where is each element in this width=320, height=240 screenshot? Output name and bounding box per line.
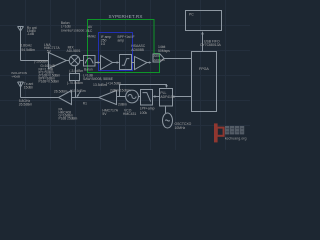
node LNA labels [44, 43, 60, 54]
node RX ant label [27, 26, 37, 36]
node IF amp labels [87, 25, 135, 46]
op-amp TX driver [99, 91, 117, 105]
svg-text:5.8GHz: 5.8GHz [20, 43, 32, 47]
svg-text:-1dB: -1dB [27, 32, 35, 36]
op-amp LNA [49, 53, 67, 69]
wire SAW to IF amp with arrow [95, 62, 99, 64]
node TX level labels [54, 89, 86, 93]
node driver gain labels [93, 82, 131, 107]
node USB FIFO labels [200, 40, 221, 47]
wire mixer to SAW [80, 60, 84, 62]
wire ADC to FPGA [164, 58, 192, 60]
antenna TX [18, 82, 24, 98]
wire PA to driver [72, 97, 99, 99]
op-amp VGA [135, 57, 148, 70]
svg-text:HMC431: HMC431 [123, 112, 136, 116]
node VCO labels [123, 109, 136, 117]
svg-text:26.5dBm: 26.5dBm [19, 103, 33, 107]
node SAW filter labels top [61, 21, 90, 32]
wire PLL to TCXO [165, 106, 167, 113]
svg-text:SAW B4008, 5806E: SAW B4008, 5806E [83, 77, 114, 81]
svg-text:26.5dBm: 26.5dBm [54, 89, 68, 93]
wire VGA to ADC with arrow [147, 62, 150, 64]
wire RX-ant to LNA [21, 60, 49, 62]
wire coupler to mixer LO [75, 66, 77, 74]
wire IF amp to xtal filter with arrow [113, 62, 119, 64]
node PLL U5 [160, 89, 173, 107]
wire coupler junction vertical [75, 81, 77, 98]
oscillator VCO [126, 90, 139, 103]
svg-text:AD9246: AD9246 [154, 58, 165, 62]
svg-text:1G: 1G [101, 42, 106, 46]
node driver labels [102, 109, 118, 117]
svg-text:4MHz: 4MHz [87, 34, 96, 38]
svg-text:10MHz: 10MHz [175, 126, 186, 130]
node ADC rate labels [158, 45, 170, 53]
svg-text:kechuang.org: kechuang.org [225, 137, 247, 141]
node LNA spec labels [39, 64, 61, 83]
svg-text:(-105dBm: (-105dBm [34, 59, 48, 63]
node PA labels [59, 108, 78, 121]
svg-text:ADL5801: ADL5801 [67, 49, 81, 53]
svg-text:(-10.5dBm: (-10.5dBm [70, 89, 86, 93]
antenna RX [18, 27, 24, 61]
node watermark logo [214, 123, 246, 142]
wire USB FPGA to PC with arrow [202, 33, 204, 52]
svg-text:13.5dBm: 13.5dBm [93, 83, 107, 87]
svg-text:100k: 100k [140, 111, 148, 115]
filter SAW1 [84, 56, 96, 67]
node PC box [186, 11, 222, 31]
svg-text:2dBm: 2dBm [118, 103, 127, 107]
svg-text:(-70.5dBm: (-70.5dBm [67, 81, 83, 85]
wire VCO feedback to PLL [120, 85, 167, 97]
node receiver-block green outline [88, 20, 160, 73]
node LPF labels [140, 107, 155, 115]
node FPGA U4 [192, 52, 217, 112]
svg-text:5V: 5V [47, 50, 52, 54]
svg-text:+40dB: +40dB [11, 75, 20, 79]
wire annotation arrow to junction [77, 92, 80, 97]
svg-text:-94.5dBm: -94.5dBm [20, 48, 35, 52]
node isolation labels [11, 71, 27, 79]
wire xtal filter to VGA [132, 62, 135, 64]
svg-text:R1: R1 [83, 101, 87, 105]
op-amp PA power amplifier [59, 91, 72, 105]
node mixer labels [67, 46, 81, 53]
op-amp IF amplifier [101, 56, 113, 70]
wire TX ant to PA [21, 97, 59, 99]
svg-text:(-3.5dBm: (-3.5dBm [69, 69, 83, 73]
svg-text:(+14.5dB): (+14.5dB) [106, 82, 121, 86]
node ADC U3 [153, 54, 164, 62]
svg-text:5V: 5V [102, 112, 107, 116]
svg-text:CY7C68013A: CY7C68013A [200, 43, 221, 47]
filter crystal limiter box [120, 55, 132, 70]
filter loop LPF box [141, 90, 153, 106]
wire LNA to mixer [67, 60, 70, 62]
mixer U2 [69, 55, 80, 66]
wire driver to VCO [117, 96, 126, 98]
oscillator TCXO [163, 113, 173, 128]
svg-text:PC: PC [189, 13, 194, 17]
svg-text:SAWBLF15B20E 1G: SAWBLF15B20E 1G [61, 28, 90, 32]
svg-text:Balun: Balun [84, 68, 93, 72]
svg-text:SYPERHET.RX: SYPERHET.RX [109, 14, 143, 19]
node TX ant labels [24, 82, 33, 89]
node TCXO labels [175, 122, 192, 130]
node SAW2 labels below green box [83, 73, 114, 81]
wire PLL to FPGA [173, 96, 192, 98]
svg-text:P1dB=0.5dBm: P1dB=0.5dBm [39, 79, 60, 83]
node RX input level labels [20, 43, 35, 52]
svg-text:50Msps: 50Msps [158, 49, 170, 53]
svg-text:amp: amp [118, 38, 125, 42]
svg-text:LC: LC [88, 29, 93, 33]
svg-text:AD608B: AD608B [131, 48, 144, 52]
svg-text:FPGA: FPGA [199, 67, 209, 71]
node VGA labels [131, 44, 145, 52]
wire VCO to LPF with arrow [138, 96, 140, 98]
svg-text:P1dB 25dBm: P1dB 25dBm [59, 117, 78, 121]
node IF-amp blue outline [99, 33, 133, 71]
wire PLL to LPF with arrow [154, 96, 160, 98]
svg-text:15dBi: 15dBi [24, 86, 33, 90]
node coupler box [70, 74, 80, 81]
